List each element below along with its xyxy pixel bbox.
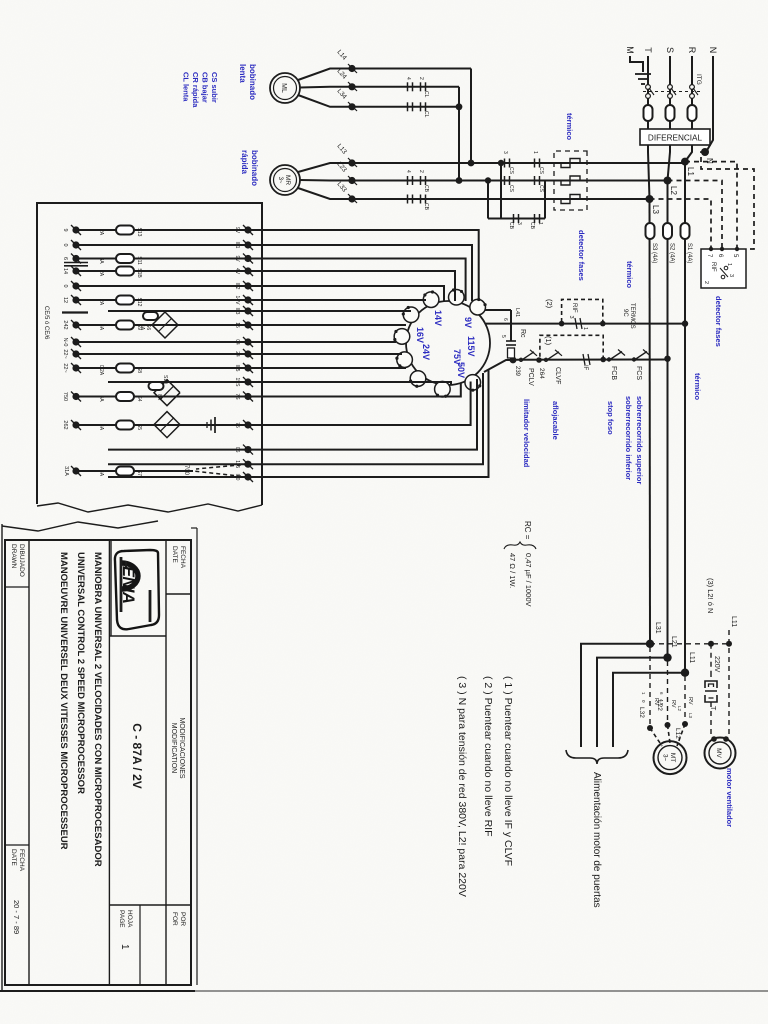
transformer winding bump 308x291 [470, 299, 486, 315]
fuse S12 2A [116, 296, 134, 305]
node RIF bypass lower [559, 321, 565, 327]
svg-text:L3: L3 [651, 205, 660, 214]
wire T [647, 56, 649, 129]
node bypass MR2 [485, 177, 491, 183]
transformer winding bump 337x362 [394, 329, 410, 345]
wire nest right 464.2 [248, 373, 483, 464]
fuse S1B 2A [116, 267, 134, 276]
wire MR line L33 drop from L3 [352, 198, 650, 200]
terminal 6 [72, 255, 79, 262]
ground earth symbol [635, 73, 651, 75]
switch FCB [610, 352, 622, 360]
node MV terminal 2 [711, 736, 717, 742]
svg-text:S12: S12 [136, 298, 142, 307]
svg-text:15: 15 [234, 322, 240, 328]
wires ML fan [298, 69, 352, 81]
dashed wire L11 to RV L12 [684, 676, 686, 721]
terminal top 4V [244, 267, 251, 274]
terminal 12 [72, 296, 79, 303]
terminal 22~ [72, 350, 79, 357]
dashed wire vent line2 pre [710, 672, 712, 681]
svg-text:CR rápida: CR rápida [191, 72, 200, 108]
svg-text:POR: POR [179, 912, 186, 926]
svg-text:9V: 9V [463, 317, 473, 328]
svg-text:FCS: FCS [635, 366, 642, 380]
svg-text:2A: 2A [98, 229, 104, 236]
svg-text:0,2A: 0,2A [98, 365, 104, 376]
node L21 [663, 653, 671, 661]
svg-text:M: M [625, 46, 635, 54]
svg-text:térmico: térmico [625, 261, 634, 289]
dashed wire L21 to RV L22 [667, 661, 669, 722]
svg-text:CS: CS [508, 185, 514, 193]
svg-text:MT: MT [669, 753, 676, 762]
node pin 6 [720, 247, 724, 251]
svg-text:R: R [687, 47, 697, 54]
switch PCLV [522, 352, 534, 360]
svg-text:CLVF: CLVF [554, 367, 561, 384]
contact CL on ML line x86.8 [425, 82, 427, 91]
ground in block [214, 417, 216, 433]
wire MR line L23 drop from L2 [352, 180, 668, 182]
switch FCS [635, 352, 647, 360]
svg-text:9V: 9V [234, 227, 240, 234]
resistor rc [508, 348, 515, 358]
relay DIFERENCIAL box [640, 129, 710, 145]
svg-text:RC =: RC = [523, 521, 532, 540]
node chain RC junction [510, 357, 517, 364]
svg-text:térmico: térmico [565, 113, 574, 141]
svg-text:22~: 22~ [62, 363, 68, 372]
transformer winding bump 358x359 [397, 352, 413, 368]
svg-text:6: 6 [502, 318, 508, 321]
terminal top 9V [244, 226, 251, 233]
terminal top 15 [244, 321, 251, 328]
contact CS lower on L2 drop [509, 176, 511, 185]
svg-text:CL: CL [423, 91, 429, 98]
svg-text:4A: 4A [98, 470, 104, 477]
svg-text:750: 750 [62, 392, 68, 401]
contact RIF on chain [580, 318, 582, 329]
contact CL on ML line x106.8 [425, 102, 427, 111]
svg-text:DIFERENCIAL: DIFERENCIAL [648, 134, 703, 143]
wire nest bottom bump c [248, 353, 402, 355]
title block row4 line [28, 540, 30, 985]
svg-text:115V: 115V [466, 336, 476, 357]
svg-text:S8: S8 [136, 367, 142, 373]
wire L11 to door supply [613, 673, 685, 747]
svg-text:FECHA: FECHA [179, 546, 186, 569]
svg-text:12: 12 [62, 297, 68, 303]
svg-text:14V: 14V [234, 296, 240, 306]
svg-text:3: 3 [502, 151, 508, 154]
wire block row 9V [76, 258, 248, 260]
node pin 5 [735, 247, 739, 251]
svg-text:DATE: DATE [171, 546, 178, 564]
svg-text:S10: S10 [162, 375, 168, 384]
fuse S10 8A [149, 382, 164, 390]
svg-text:L32: L32 [638, 707, 645, 718]
svg-text:CB: CB [529, 222, 535, 230]
svg-text:(3) L2! ó N: (3) L2! ó N [706, 578, 715, 613]
fuse S1 4A [681, 223, 690, 239]
terminal top 04 [244, 338, 251, 345]
svg-text:DATE: DATE [10, 849, 17, 867]
svg-text:3: 3 [568, 316, 574, 319]
terminal 0 [72, 282, 79, 289]
svg-text:8A: 8A [156, 394, 162, 401]
svg-text:47 Ω / 1W.: 47 Ω / 1W. [508, 553, 517, 588]
svg-text:CE/5 ó CE/6: CE/5 ó CE/6 [43, 306, 49, 340]
svg-text:CS: CS [538, 167, 544, 175]
svg-text:L2: L2 [669, 186, 678, 195]
svg-text:CL: CL [423, 111, 429, 118]
node RIF bypass upper [600, 321, 606, 327]
svg-text:RIF: RIF [571, 303, 577, 313]
node L13 [348, 159, 355, 166]
svg-text:( 2 ) Puentear cuando no: ( 2 ) Puentear cuando no lleve RIF [482, 676, 494, 837]
rectifier bridge R3 [154, 412, 180, 438]
fuse S11 3A [116, 254, 134, 263]
svg-text:MR: MR [284, 175, 291, 185]
node L24 [348, 83, 355, 90]
wire termos chain vertical [486, 323, 685, 325]
svg-text:3: 3 [728, 274, 734, 277]
svg-text:RIF: RIF [710, 262, 716, 272]
svg-text:CS: CS [508, 167, 514, 175]
title block row2 line [108, 540, 110, 985]
wire T to L3 node [648, 145, 650, 199]
wire block row 31A [76, 470, 193, 472]
switch CLVF [547, 352, 559, 360]
svg-text:I03: I03 [234, 308, 240, 315]
terminal top 115 [244, 461, 251, 468]
svg-text:3~: 3~ [277, 177, 283, 184]
transformer winding bump 317x354 [403, 307, 419, 323]
wire dashed L3 to detector fases pin7 [650, 199, 712, 249]
svg-text:0,47 µF / 1000V: 0,47 µF / 1000V [524, 553, 533, 607]
transformer winding bump 384x325 [435, 381, 451, 397]
svg-text:264: 264 [538, 368, 545, 379]
svg-text:CB: CB [423, 203, 429, 211]
switch ITG pole y120 [646, 85, 651, 90]
contact CB on MR line x180.5 [425, 176, 427, 185]
wire block row 24 [76, 353, 248, 355]
logo cell line [109, 635, 166, 637]
node L3 [646, 195, 654, 203]
contact CS upper on L2 drop [539, 176, 541, 185]
svg-text:aflojacable: aflojacable [551, 401, 560, 440]
wire block row I01 [76, 244, 248, 246]
svg-text:4V: 4V [234, 268, 240, 275]
title block por cell line [109, 904, 191, 906]
terminal top 15S [244, 378, 251, 385]
node L22 [665, 722, 671, 728]
thermal overload element x163 [561, 159, 580, 168]
separator mark group b [62, 311, 88, 313]
svg-text:4A: 4A [139, 324, 145, 331]
sheet torn edge lower [2, 521, 158, 531]
svg-text:S5: S5 [136, 424, 142, 430]
transformer winding bump 375x347 [410, 371, 426, 387]
wire block row I03 [108, 310, 248, 312]
svg-text:bobinado: bobinado [248, 64, 257, 100]
svg-text:HOJA: HOJA [126, 910, 133, 928]
wire nest right 396.5 [248, 384, 461, 397]
motor MV ventilador [705, 738, 736, 769]
wire nest right 382 [248, 382, 451, 385]
svg-text:9V: 9V [234, 255, 240, 262]
fuse T phase [644, 105, 653, 121]
fuse S4 4A [116, 392, 134, 401]
node L33 [348, 195, 355, 202]
svg-text:sobrerrecorrido inferior: sobrerrecorrido inferior [624, 396, 633, 480]
wire L31 to door supply [581, 644, 650, 747]
title block outer [5, 540, 191, 985]
wire ML line L14 [352, 68, 471, 70]
svg-text:S11: S11 [136, 256, 142, 265]
wire N [706, 56, 713, 152]
rectifier bridge R2 [154, 380, 180, 406]
fuse S9 4A [116, 321, 134, 330]
svg-text:CS subir: CS subir [210, 72, 219, 103]
wire block row 7S [76, 396, 248, 398]
cenia logo [115, 550, 159, 629]
switch ITG link dashed [640, 91, 700, 93]
svg-text:I02: I02 [234, 283, 240, 290]
wire nest left 258.5 [248, 259, 466, 302]
title block row1 line [165, 540, 167, 985]
transformer main circle [406, 301, 490, 385]
svg-text:1: 1 [532, 151, 538, 154]
svg-text:T: T [709, 706, 716, 711]
wires MR fan [298, 163, 352, 172]
svg-text:20 - 7 - 89: 20 - 7 - 89 [12, 900, 21, 934]
svg-text:1: 1 [119, 944, 130, 950]
svg-text:6: 6 [62, 257, 68, 260]
hoja cell line [139, 905, 141, 985]
svg-text:DRAWN: DRAWN [10, 544, 17, 569]
fuse S2 4A [663, 223, 672, 239]
svg-text:L11: L11 [688, 652, 695, 663]
brace alimentacion [566, 750, 628, 764]
svg-text:4A: 4A [98, 324, 104, 331]
svg-text:1: 1 [537, 222, 543, 225]
contact IF [588, 354, 590, 365]
wire nest into left bump a [248, 299, 426, 301]
sheet border right [0, 990, 768, 992]
svg-text:2A: 2A [98, 299, 104, 306]
fuse R phase [688, 105, 697, 121]
transformer winding bump 299x312 [449, 289, 465, 305]
svg-text:detector fases: detector fases [577, 230, 586, 281]
svg-text:S1 (4A): S1 (4A) [686, 243, 692, 263]
svg-text:N-0: N-0 [62, 338, 68, 347]
node L23 [348, 177, 355, 184]
svg-text:S: S [665, 47, 675, 53]
wire block row 04 [76, 341, 248, 343]
sheet border bottom [1, 524, 3, 991]
terminal top 75 [244, 421, 251, 428]
terminal top I02 [244, 282, 251, 289]
svg-text:220V: 220V [713, 656, 720, 673]
svg-text:I05: I05 [234, 365, 240, 372]
wire block row 75 [76, 424, 248, 426]
wire block row 9V [76, 229, 248, 231]
wire dashed L1 to detector fases pin5 [685, 162, 737, 249]
dashed bypass box note1 [540, 335, 603, 360]
dashed wires into MT [677, 724, 685, 746]
wire block row 115 [108, 463, 248, 465]
node L1 [681, 158, 689, 166]
svg-text:stop foso: stop foso [606, 401, 615, 435]
contact CB on MR line x199 [425, 195, 427, 204]
terminal top 9V [244, 255, 251, 262]
svg-text:L11: L11 [730, 616, 737, 627]
svg-text:14V: 14V [433, 310, 443, 326]
title block fecha cell line [166, 593, 191, 595]
rectifier bridge R1 [152, 312, 178, 338]
node link MR2 [456, 177, 463, 184]
svg-text:3A: 3A [98, 257, 104, 264]
node L34 [348, 103, 355, 110]
terminal 750 [72, 393, 79, 400]
wire nest bottom bump d [248, 367, 406, 369]
svg-text:CB: CB [508, 222, 514, 230]
svg-text:L1: L1 [686, 167, 695, 176]
svg-text:4A: 4A [98, 395, 104, 402]
wire S [669, 56, 671, 129]
svg-text:4: 4 [405, 170, 411, 173]
svg-text:L31: L31 [654, 622, 661, 634]
wire ML line L34 [352, 106, 459, 108]
detector fases unit box [701, 249, 746, 288]
svg-text:7S: 7S [234, 393, 240, 400]
svg-text:S1B: S1B [136, 268, 142, 278]
svg-text:lenta: lenta [238, 64, 247, 83]
svg-text:IF: IF [582, 365, 588, 371]
svg-text:FOR: FOR [171, 912, 178, 926]
svg-text:S2 (4A): S2 (4A) [669, 243, 675, 263]
svg-text:TERMOS: TERMOS [629, 303, 635, 329]
svg-text:CB: CB [423, 185, 429, 193]
svg-text:0: 0 [62, 284, 68, 287]
svg-text:2A: 2A [98, 270, 104, 277]
wire nest bottom bump a [248, 324, 406, 326]
wire block row 06 [108, 449, 248, 451]
link wire ML1-MR1 [470, 69, 472, 164]
svg-text:3~: 3~ [662, 754, 668, 761]
switch ITG pole y76 [690, 85, 695, 90]
svg-text:PCLV: PCLV [527, 368, 534, 386]
svg-text:DIBUJADO: DIBUJADO [18, 544, 25, 577]
terminal 9 [72, 226, 79, 233]
terminal top 06 [244, 446, 251, 453]
svg-text:MODIFICACIONES: MODIFICACIONES [178, 717, 185, 778]
wire chain to transformer [484, 360, 513, 372]
svg-text:L2: L2 [677, 706, 682, 712]
node link ML3 [456, 103, 463, 110]
dibujado cell line [5, 586, 29, 588]
wire L1 bus [684, 162, 686, 673]
terminal 0 [72, 241, 79, 248]
wire safety chain vertical [513, 359, 668, 361]
motor ML [270, 73, 300, 103]
fuse S phase [666, 105, 675, 121]
wire nest right 449.6 [248, 379, 477, 450]
thermal overload dashed box termico [554, 151, 587, 210]
svg-text:(2): (2) [545, 299, 554, 309]
node L14 [348, 65, 355, 72]
svg-text:2: 2 [418, 170, 424, 173]
dashed wire vent line1 [728, 630, 730, 737]
thermal overload element x199 [561, 195, 580, 204]
svg-text:RV: RV [670, 700, 676, 708]
transformer winding bump 302x336 [423, 292, 439, 308]
dashed wire vent line2 [710, 644, 712, 672]
contact CB lower [518, 214, 520, 223]
svg-text:motor ventilador: motor ventilador [725, 768, 734, 827]
node L12 [682, 721, 688, 727]
fuse S7 4A [116, 467, 134, 476]
svg-text:MANIOBRA UNIVERSAL 2 VELOCI: MANIOBRA UNIVERSAL 2 VELOCIDADES CON MIC… [92, 552, 103, 867]
svg-text:S4: S4 [136, 395, 142, 401]
wire rc down to transformer [477, 309, 511, 311]
link wire ML2-MR2 [458, 87, 460, 181]
svg-text:RV: RV [653, 698, 659, 706]
svg-text:CL lenta: CL lenta [182, 72, 191, 102]
svg-text:FCB: FCB [610, 366, 617, 380]
svg-text:Rc: Rc [519, 329, 526, 338]
svg-text:sobrerrecorrido superior: sobrerrecorrido superior [635, 396, 644, 484]
fuse S8 0,2A [116, 364, 134, 373]
svg-text:4A: 4A [98, 424, 104, 431]
wire L21 to door supply [597, 658, 668, 747]
wire nest left 286 [248, 286, 444, 301]
svg-text:24V: 24V [421, 344, 431, 360]
svg-text:CS: CS [538, 185, 544, 193]
node L31 [646, 640, 654, 648]
wire L3 bus [649, 199, 652, 644]
svg-text:FECHA: FECHA [18, 849, 25, 872]
wire block row 14V [76, 299, 248, 301]
svg-text:1: 1 [582, 327, 588, 330]
bypass link from MR1 [500, 163, 502, 219]
svg-text:rápida: rápida [240, 150, 249, 175]
wire rc chain [510, 310, 512, 341]
svg-text:4: 4 [405, 77, 411, 80]
wire L2 bus [667, 181, 669, 658]
svg-text:L41: L41 [514, 308, 520, 317]
terminal 14 [72, 267, 79, 274]
svg-text:RV: RV [687, 697, 693, 705]
wire nest left 245 [248, 245, 472, 301]
svg-text:N: N [708, 47, 718, 54]
motor MR [270, 165, 300, 195]
svg-text:06: 06 [234, 447, 240, 453]
terminal top 7S [244, 393, 251, 400]
wire nest bottom bump b [248, 341, 396, 343]
svg-text:MV: MV [715, 748, 722, 758]
svg-text:( 3 ) N para tensión de: ( 3 ) N para tensión de red 380V, L2! pa… [456, 676, 468, 897]
svg-text:75: 75 [234, 422, 240, 428]
svg-text:ML: ML [280, 83, 287, 93]
wire nest into left bump b [248, 310, 411, 312]
wire dashed N to detector fases [701, 152, 754, 249]
terminal top I03 [244, 307, 251, 314]
svg-text:S13: S13 [136, 228, 142, 237]
wire nest right 477 [248, 369, 489, 477]
